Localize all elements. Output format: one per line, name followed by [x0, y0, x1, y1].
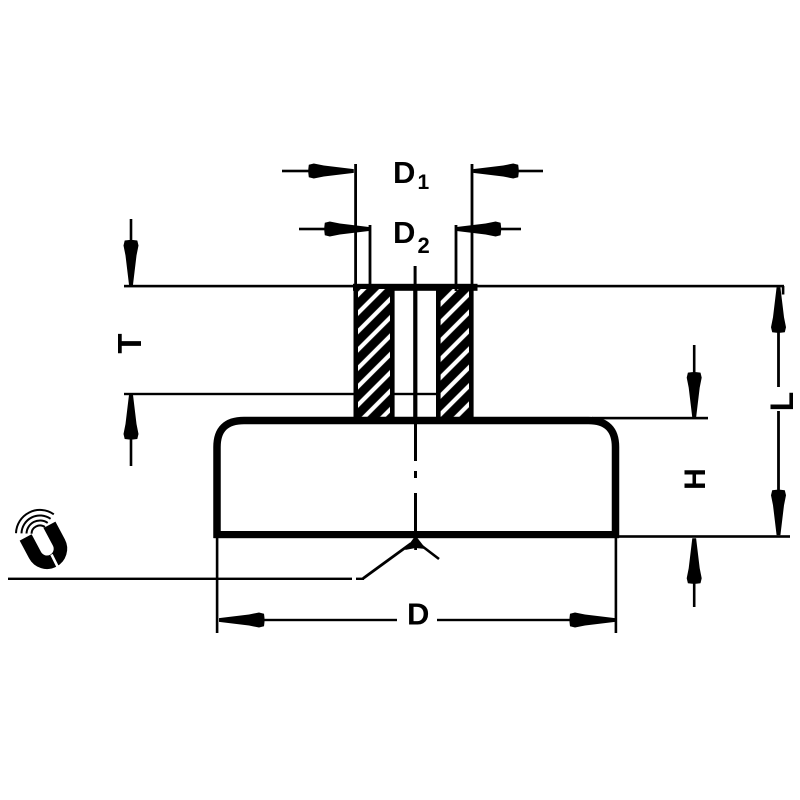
D dimension left shaft — [263, 619, 397, 621]
D1 left extension line — [354, 164, 357, 291]
bushing top band — [353, 284, 478, 291]
magnet icon arc 1 — [16, 510, 54, 533]
D dimension right shaft — [437, 619, 571, 621]
svg-text:L: L — [764, 392, 800, 412]
magnet icon arc 4 — [32, 525, 45, 533]
D2 left arrow shaft — [299, 228, 326, 231]
svg-text:D: D — [393, 215, 415, 250]
center line dash 2 — [414, 493, 417, 538]
baseline under pot — [8, 578, 352, 580]
center line dot — [414, 471, 417, 478]
svg-text:H: H — [679, 468, 712, 490]
pot body outline — [217, 421, 616, 539]
svg-text:1: 1 — [418, 171, 430, 194]
pot bottom line — [214, 531, 620, 538]
D left extension line — [216, 538, 219, 633]
T bottom reference line — [124, 393, 440, 395]
magnet icon horseshoe — [26, 525, 66, 567]
D1 left arrow — [308, 164, 354, 179]
right bottom extension line (H/L bottom) — [619, 535, 790, 538]
bushing hole left line — [390, 288, 395, 419]
D right extension line — [615, 538, 618, 633]
magnet icon arc 3 — [27, 520, 48, 533]
leader diagonal line — [363, 544, 411, 579]
magnet pole gap — [52, 555, 60, 571]
D1 right arrow shaft — [518, 170, 543, 173]
L dimension line upper — [777, 290, 780, 387]
top reference line (bushing top / L top) — [124, 285, 784, 288]
D2 right arrow — [456, 222, 502, 237]
bushing left wall hatch — [358, 289, 391, 419]
bushing right outer edge — [469, 285, 474, 420]
T top arrow tail — [130, 219, 133, 242]
H bottom arrow tail — [693, 582, 696, 607]
T bottom arrow — [124, 394, 139, 440]
bushing left outer edge — [354, 285, 359, 420]
T top arrow — [124, 240, 139, 286]
D2 right extension line — [455, 225, 458, 291]
leader tick below tip — [414, 543, 417, 550]
H top arrow tail — [693, 345, 696, 373]
D1 left arrow shaft — [282, 170, 310, 173]
center line tick above bushing — [414, 266, 417, 285]
L bottom arrow — [771, 490, 786, 536]
L dimension line lower — [777, 411, 780, 507]
tick at right end of top line — [782, 286, 785, 295]
leader arrowhead — [405, 536, 426, 551]
D dimension left arrow — [219, 613, 265, 628]
D1 right extension line — [471, 164, 474, 291]
leader right leg — [418, 543, 439, 559]
bushing hole right line — [436, 288, 441, 419]
svg-text:D: D — [407, 597, 429, 632]
D2 left arrow — [324, 222, 370, 237]
D2 left extension line — [369, 225, 372, 291]
baseline dash — [356, 578, 364, 580]
svg-text:D: D — [393, 155, 415, 190]
T bottom arrow tail — [130, 438, 133, 466]
center line through bushing — [413, 285, 417, 420]
bushing right wall hatch — [441, 289, 470, 419]
H bottom arrow — [687, 538, 702, 584]
svg-text:T: T — [111, 333, 148, 353]
magnet icon arc 2 — [22, 515, 51, 533]
H top extension line — [592, 417, 708, 420]
svg-text:2: 2 — [418, 233, 430, 258]
center line dash 1 — [414, 420, 417, 461]
D2 right arrow shaft — [500, 228, 521, 231]
D dimension right arrow — [570, 613, 616, 628]
D1 right arrow — [473, 164, 519, 179]
L top arrow — [771, 287, 786, 333]
H top arrow — [687, 372, 702, 418]
